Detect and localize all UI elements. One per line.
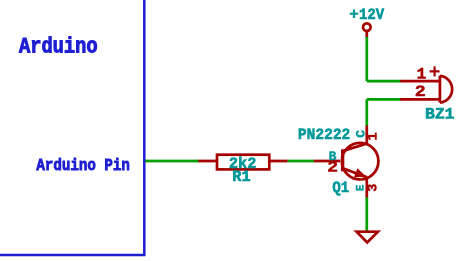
transistor Q1 circle bbox=[342, 143, 379, 180]
svg-text:Arduino Pin: Arduino Pin bbox=[36, 157, 129, 176]
wire: resistor to transistor base bbox=[288, 160, 314, 163]
transistor Q1 emitter diagonal bbox=[342, 168, 366, 177]
transistor Q1 collector pin bbox=[365, 125, 368, 144]
svg-text:Arduino: Arduino bbox=[19, 35, 98, 60]
ground bbox=[357, 232, 378, 243]
transistor Q1 emitter arrow bbox=[354, 168, 367, 177]
svg-text:1: 1 bbox=[366, 132, 382, 140]
wire: to buzzer pin 2 bbox=[367, 98, 401, 101]
svg-text:1: 1 bbox=[417, 65, 427, 83]
svg-text:2: 2 bbox=[415, 83, 426, 101]
Arduino frame box bbox=[0, 0, 144, 255]
resistor R1 body bbox=[217, 155, 269, 170]
resistor R1 pin right bbox=[269, 160, 287, 163]
svg-text:R1: R1 bbox=[232, 168, 250, 186]
wire: emitter to ground bbox=[365, 197, 368, 231]
svg-text:PN2222: PN2222 bbox=[298, 126, 350, 144]
transistor Q1 emitter pin bbox=[365, 177, 368, 198]
svg-text:3: 3 bbox=[367, 184, 382, 192]
transistor Q1 base pin bbox=[314, 160, 340, 163]
supply terminal circle bbox=[363, 23, 371, 31]
buzzer BZ1 body dome bbox=[440, 76, 452, 103]
supply +12V label plus sign bbox=[350, 10, 358, 19]
wire: box edge to resistor bbox=[145, 160, 198, 163]
buzzer BZ1 body flat side bbox=[439, 76, 442, 103]
svg-text:2: 2 bbox=[327, 159, 338, 176]
transistor Q1 base bar bbox=[341, 149, 344, 171]
buzzer BZ1 pin 2 bbox=[400, 98, 440, 101]
transistor Q1 collector diagonal bbox=[342, 144, 366, 152]
svg-text:Q1: Q1 bbox=[332, 179, 349, 197]
wire: supply down bbox=[365, 37, 368, 81]
svg-text:BZ1: BZ1 bbox=[425, 105, 455, 123]
buzzer polarity plus bbox=[430, 66, 440, 76]
wire: collector riser bbox=[365, 99, 368, 125]
buzzer BZ1 pin 1 bbox=[400, 80, 440, 83]
svg-text:12V: 12V bbox=[359, 6, 385, 24]
resistor R1 pin left bbox=[198, 160, 217, 163]
supply stub bbox=[365, 31, 368, 37]
wire: to buzzer pin 1 bbox=[367, 80, 401, 83]
